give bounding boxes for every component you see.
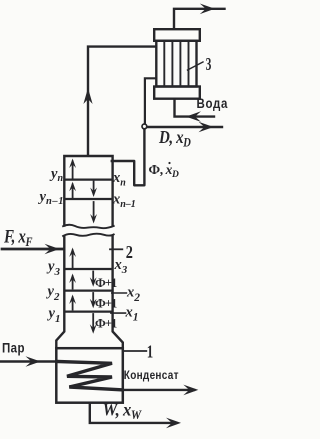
dot over x of xD <box>168 162 170 164</box>
up space 2-1 <box>69 295 76 305</box>
condenser tube 1 <box>163 41 165 87</box>
tray n <box>65 178 111 180</box>
pointer dash to label x2 <box>112 292 127 294</box>
down arrow shaft top space 2 <box>93 182 95 194</box>
vapor pipe from column to condenser <box>88 47 155 155</box>
pointer line to label 3 <box>188 62 204 70</box>
down below tray2 <box>90 299 97 309</box>
svg-text:xn: xn <box>112 170 126 188</box>
condenser U3 top cap <box>154 29 200 41</box>
wavy break bottom of top section <box>63 225 114 228</box>
svg-text:Конденсат: Конденсат <box>124 369 179 382</box>
svg-text:2: 2 <box>126 241 133 262</box>
steam inlet line <box>0 360 56 363</box>
column lower section shell <box>56 237 64 348</box>
up s2 <box>69 182 76 192</box>
down arrow shaft below tray3 <box>92 272 94 284</box>
arrowheads in-column up s1 <box>69 159 76 169</box>
condenser tube 4 <box>188 41 190 87</box>
up above tray3 <box>69 248 76 258</box>
column top section shell <box>64 156 112 226</box>
down s2 <box>90 188 97 198</box>
svg-text:D, xD: D, xD <box>158 127 191 150</box>
condenser U3 tube shell <box>156 41 196 87</box>
arrowhead vapor riser <box>83 88 92 104</box>
svg-text:F, xF: F, xF <box>3 226 32 249</box>
water inlet pipe <box>175 99 215 117</box>
up arrow shaft above tray3 <box>72 251 74 268</box>
svg-text:y1: y1 <box>47 306 61 326</box>
down arrow shaft below tray2 <box>92 293 94 305</box>
svg-text:x1: x1 <box>125 305 139 324</box>
arrowhead distillate D <box>199 122 214 133</box>
wavy break top of lower section <box>63 234 114 236</box>
arrowhead feed F <box>45 244 60 255</box>
condenser U3 bottom cap <box>154 87 200 99</box>
down below tray1 <box>90 324 97 334</box>
svg-text:Ф+1: Ф+1 <box>95 316 117 330</box>
tray 2 <box>65 289 111 291</box>
tray n-1 <box>65 198 111 200</box>
svg-text:xn–1: xn–1 <box>112 192 136 210</box>
bottoms outlet pipe <box>90 403 176 423</box>
heating coil <box>57 362 122 390</box>
down arrow shaft top space 3 <box>93 202 95 220</box>
distillate D line <box>147 126 222 128</box>
pointer dash to label 2 <box>110 248 122 250</box>
arrowhead steam <box>26 356 41 367</box>
up space 3-2 <box>69 274 76 284</box>
arrowhead bottoms W <box>166 418 181 429</box>
tray 1 <box>65 310 111 312</box>
pointer dash to label 1 <box>124 350 147 352</box>
condenser tube 2 <box>171 41 173 87</box>
arrowhead condensate <box>183 385 198 396</box>
svg-text:x2: x2 <box>126 285 140 304</box>
reflux pipe with U-seal <box>112 129 145 186</box>
pointer dash to label x1 <box>111 312 126 314</box>
svg-text:Ф+1: Ф+1 <box>95 296 117 310</box>
svg-text:3: 3 <box>206 54 212 74</box>
up arrow shaft top space 1 <box>72 162 74 179</box>
junction node circle <box>142 124 147 129</box>
arrowhead water inlet (left) <box>186 111 201 122</box>
down arrow shaft below tray1 <box>92 314 94 330</box>
condensate takeoff pipe <box>145 78 155 124</box>
down s3 <box>90 214 97 224</box>
svg-text:y2: y2 <box>46 284 60 304</box>
condenser tube 3 <box>179 41 181 87</box>
tray 3 <box>65 268 111 270</box>
svg-text:1: 1 <box>147 342 154 362</box>
svg-text:Ф, xD: Ф, xD <box>149 162 180 180</box>
water outlet pipe top <box>174 9 225 29</box>
svg-text:W, xW: W, xW <box>103 399 143 422</box>
svg-text:yn–1: yn–1 <box>38 189 65 207</box>
up arrow shaft space 3-2 <box>72 277 74 289</box>
arrowhead water outlet top <box>200 4 215 15</box>
feed line F <box>2 248 64 251</box>
condensate outlet line <box>123 389 194 391</box>
svg-text:Пар: Пар <box>2 341 25 356</box>
still vessel 1 <box>56 348 123 403</box>
svg-text:y3: y3 <box>46 259 60 279</box>
svg-text:Вода: Вода <box>197 96 229 111</box>
down below tray3 <box>90 277 97 287</box>
svg-text:yn: yn <box>49 166 63 184</box>
svg-text:Ф+1: Ф+1 <box>95 276 117 290</box>
up arrow shaft top space 2 <box>72 185 74 198</box>
up arrow shaft space 2-1 <box>72 298 74 310</box>
